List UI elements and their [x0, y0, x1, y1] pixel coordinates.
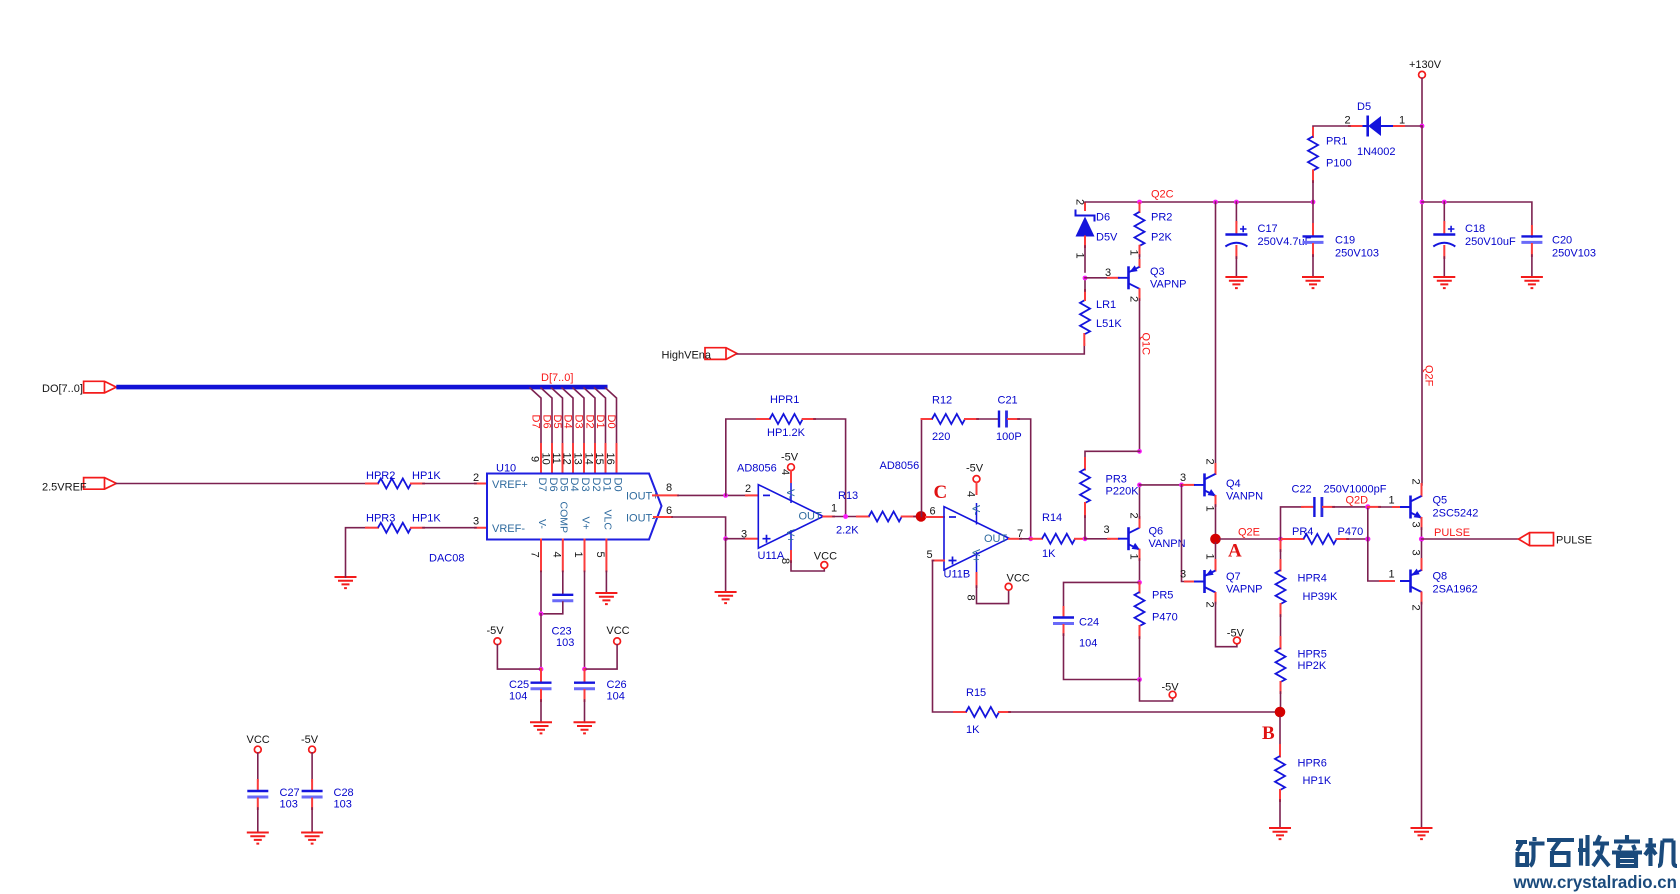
svg-text:3: 3	[1104, 524, 1110, 536]
svg-text:2: 2	[1128, 296, 1140, 302]
wire Q2D to Q5 base	[1368, 495, 1400, 508]
svg-text:D0: D0	[605, 415, 617, 429]
wire VCC to C26 junction	[585, 645, 618, 669]
wire C27 to ground	[257, 799, 259, 833]
svg-text:PR3: PR3	[1106, 474, 1127, 486]
svg-text:HPR4: HPR4	[1298, 573, 1327, 585]
capacitor C21	[996, 395, 1022, 444]
svg-text:250V103: 250V103	[1552, 248, 1596, 260]
wire D5 right lead	[1392, 115, 1422, 127]
wire C24 top hook	[1064, 582, 1140, 616]
wire node A to PR4 junction	[1220, 537, 1283, 542]
diode D5	[1345, 101, 1396, 158]
svg-text:P100: P100	[1326, 158, 1352, 170]
svg-text:103: 103	[280, 799, 298, 811]
ground HPR6	[1269, 828, 1291, 839]
svg-text:HP1K: HP1K	[1303, 775, 1332, 787]
ground C28	[301, 833, 323, 844]
capacitor C22	[1292, 484, 1387, 518]
power VCC (U11B pin8)	[965, 573, 1030, 604]
transistor Q5	[1400, 495, 1478, 520]
svg-text:DO[7..0]: DO[7..0]	[42, 383, 83, 395]
svg-text:VAPNP: VAPNP	[1150, 279, 1186, 291]
svg-text:2SA1962: 2SA1962	[1433, 584, 1478, 596]
svg-text:104: 104	[607, 691, 625, 703]
svg-text:Q3: Q3	[1150, 266, 1165, 278]
svg-text:2: 2	[1204, 459, 1216, 465]
capacitor C26	[574, 669, 627, 702]
wire PR3 to R14 junction	[1084, 503, 1086, 539]
svg-text:1K: 1K	[1042, 548, 1056, 560]
svg-text:VCC: VCC	[814, 551, 837, 563]
power -5V (Q7)	[1227, 628, 1245, 644]
svg-text:13: 13	[572, 453, 584, 465]
wire IOUT- jog down to pin3	[672, 493, 728, 541]
svg-text:OUT: OUT	[984, 533, 1008, 545]
svg-text:VCC: VCC	[247, 734, 270, 746]
wire PR2 to Q3 emitter	[1128, 246, 1140, 267]
svg-text:12: 12	[561, 453, 573, 465]
wire node C to U11B pin6	[926, 506, 944, 518]
svg-text:Q8: Q8	[1433, 571, 1448, 583]
svg-text:D7: D7	[529, 415, 541, 429]
svg-text:HP2K: HP2K	[1298, 660, 1327, 672]
wire C18 to ground	[1443, 246, 1445, 277]
svg-text:100P: 100P	[996, 431, 1022, 443]
net label Q2F	[1423, 365, 1435, 387]
svg-text:L51K: L51K	[1096, 318, 1122, 330]
wire R12 feedback left	[922, 419, 933, 516]
wire Q6 emitter down	[1128, 550, 1142, 585]
svg-text:D3: D3	[579, 478, 591, 492]
svg-text:1: 1	[1389, 495, 1395, 507]
resistor R13	[836, 490, 915, 537]
svg-text:250V103: 250V103	[1335, 248, 1379, 260]
ground C26	[574, 722, 596, 733]
ground U11A pin3	[715, 592, 737, 603]
svg-text:2: 2	[1410, 479, 1422, 485]
svg-text:PULSE: PULSE	[1434, 527, 1470, 539]
wire C17 to ground	[1235, 246, 1237, 277]
wire Q2C right segment	[1422, 200, 1532, 237]
svg-text:C28: C28	[334, 787, 354, 799]
net label Q2E	[1238, 527, 1260, 539]
svg-text:2.5VREF: 2.5VREF	[42, 482, 87, 494]
watermark url	[1513, 872, 1677, 892]
wire Q7 base hook	[1180, 485, 1194, 582]
wire pin4 COMP down to C23	[562, 571, 564, 594]
transistor Q3	[1118, 265, 1186, 290]
svg-text:Q7: Q7	[1226, 571, 1241, 583]
port DO[7..0]	[42, 381, 116, 395]
svg-text:1: 1	[1204, 554, 1216, 560]
DAC right pin stubs 8,6	[653, 482, 678, 517]
svg-text:Q1C: Q1C	[1140, 333, 1152, 356]
svg-text:2: 2	[1410, 605, 1422, 611]
svg-text:-5V: -5V	[781, 452, 799, 464]
ground VLC	[595, 593, 617, 604]
svg-text:D[7..0]: D[7..0]	[541, 372, 573, 384]
resistor PR2	[1135, 203, 1173, 246]
wire pin7 down to -5V junction	[539, 614, 544, 672]
svg-text:1: 1	[1204, 506, 1216, 512]
svg-text:D1: D1	[601, 478, 613, 492]
node A	[1210, 534, 1242, 562]
svg-text:D5V: D5V	[1096, 232, 1118, 244]
svg-text:+130V: +130V	[1409, 59, 1442, 71]
svg-text:220: 220	[932, 431, 950, 443]
capacitor C19	[1303, 202, 1380, 260]
svg-text:P2K: P2K	[1151, 232, 1172, 244]
net labels D7..D0 on wires	[529, 415, 617, 429]
wire pin3 to ground	[725, 539, 727, 592]
svg-text:C22: C22	[1292, 484, 1312, 496]
svg-text:PR4: PR4	[1292, 526, 1313, 538]
svg-text:1: 1	[1074, 253, 1086, 259]
svg-text:D3: D3	[572, 415, 584, 429]
resistor PR4	[1282, 526, 1363, 544]
svg-text:AD8056: AD8056	[880, 460, 920, 472]
wire Q1C junction to Q4 base junction	[1140, 483, 1184, 488]
svg-text:10: 10	[540, 453, 552, 465]
svg-text:3: 3	[741, 529, 747, 541]
svg-text:2: 2	[1345, 115, 1351, 127]
wire R14 to Q6 base	[1083, 524, 1119, 541]
wire U11B pin5 down to R15	[927, 549, 956, 712]
svg-text:6: 6	[930, 506, 936, 518]
wire HPR1 feedback left	[726, 419, 770, 495]
resistor HPR5	[1276, 648, 1327, 682]
pin stubs D7-D0 (pins 9-16)	[541, 444, 617, 474]
svg-text:C27: C27	[280, 787, 300, 799]
svg-text:D5: D5	[1357, 101, 1371, 113]
svg-text:HP1K: HP1K	[412, 470, 441, 482]
power -5V (U11A pin4)	[779, 452, 799, 483]
svg-text:4: 4	[779, 469, 791, 475]
svg-text:-5V: -5V	[1162, 682, 1180, 694]
wire Q8 emitter to ground	[1410, 593, 1422, 829]
svg-text:3: 3	[1180, 472, 1186, 484]
power -5V (U11B pin4)	[965, 463, 984, 498]
svg-text:C: C	[934, 482, 948, 503]
capacitor C25	[509, 669, 552, 702]
wire node B down to HPR6	[1279, 717, 1281, 757]
wire pin7 V- down	[540, 571, 542, 614]
wire HPR1 feedback right	[803, 419, 846, 517]
wire HighVEna to LR1	[737, 334, 1084, 354]
capacitor C28	[302, 787, 354, 811]
transistor Q7	[1194, 569, 1262, 595]
svg-text:-5V: -5V	[966, 463, 984, 475]
svg-text:1K: 1K	[966, 724, 980, 736]
capacitor C23	[552, 595, 575, 649]
svg-text:V-: V-	[536, 519, 548, 529]
svg-text:VAPNP: VAPNP	[1226, 584, 1262, 596]
svg-text:Q2E: Q2E	[1238, 527, 1260, 539]
resistor HPR3	[366, 513, 441, 533]
svg-text:C23: C23	[552, 626, 572, 638]
svg-text:1: 1	[1399, 115, 1405, 127]
svg-text:8: 8	[965, 595, 977, 601]
transistor Q4	[1194, 473, 1263, 502]
ground for HPR3	[335, 577, 357, 588]
svg-text:AD8056: AD8056	[737, 463, 777, 475]
svg-text:1N4002: 1N4002	[1357, 146, 1396, 158]
power VCC (DAC)	[606, 625, 629, 645]
wire node A down to Q7 emitter	[1204, 543, 1216, 571]
svg-text:C24: C24	[1079, 617, 1099, 629]
svg-text:HPR6: HPR6	[1298, 758, 1327, 770]
node B	[1262, 707, 1285, 744]
svg-text:D1: D1	[594, 415, 606, 429]
svg-text:104: 104	[509, 691, 527, 703]
node C	[916, 482, 948, 522]
svg-text:HP1.2K: HP1.2K	[767, 427, 806, 439]
svg-text:DAC08: DAC08	[429, 553, 464, 565]
wire C28 to ground	[311, 799, 313, 833]
transistor Q8	[1400, 569, 1478, 596]
resistor HPR6	[1275, 756, 1332, 790]
bus D[7..0]	[116, 385, 607, 390]
svg-text:A: A	[1228, 541, 1242, 562]
resistor R14	[1031, 512, 1085, 560]
svg-text:16: 16	[604, 453, 616, 465]
wire pin5 VLC to ground	[605, 571, 607, 593]
wire pin3 stub	[726, 529, 758, 541]
svg-text:4: 4	[550, 552, 562, 558]
wire R13 to node C	[914, 516, 921, 518]
svg-text:D2: D2	[583, 415, 595, 429]
svg-text:D7: D7	[536, 478, 548, 492]
svg-text:104: 104	[1079, 638, 1097, 650]
wire Q6 collector up	[1128, 483, 1142, 528]
svg-text:4: 4	[965, 491, 977, 497]
net Q2C wire	[1085, 200, 1315, 205]
svg-text:VANPN: VANPN	[1149, 538, 1186, 550]
resistor HPR1	[767, 394, 806, 439]
svg-text:VANPN: VANPN	[1226, 491, 1263, 503]
wire Q4 base stub	[1180, 472, 1194, 485]
svg-text:6: 6	[666, 505, 672, 517]
capacitor C18	[1433, 202, 1516, 248]
svg-text:1: 1	[572, 552, 584, 558]
wire Q4 emitter to node A	[1204, 496, 1216, 535]
capacitor C20	[1521, 226, 1596, 260]
svg-text:2: 2	[1128, 513, 1140, 519]
wire C25 to ground	[540, 700, 542, 722]
svg-text:Q6: Q6	[1149, 526, 1164, 538]
DAC bottom pin stubs 7,4,1,5	[529, 540, 607, 572]
svg-text:P220K: P220K	[1106, 486, 1140, 498]
power -5V (C28)	[301, 734, 319, 753]
svg-text:U10: U10	[496, 463, 516, 475]
svg-text:1: 1	[1389, 569, 1395, 581]
svg-text:7: 7	[529, 552, 541, 558]
wire Q5 emitter to PULSE node	[1410, 518, 1425, 542]
svg-text:2: 2	[473, 472, 479, 484]
power -5V (DAC)	[487, 625, 505, 645]
ground C20	[1521, 277, 1543, 288]
resistor PR5	[1135, 583, 1178, 626]
svg-text:www.crystalradio.cn: www.crystalradio.cn	[1513, 872, 1677, 892]
svg-text:1: 1	[1128, 554, 1140, 560]
wire HPR2 to VREF+ pin 2	[411, 472, 487, 484]
ground C27	[247, 833, 269, 844]
svg-text:COMP: COMP	[558, 502, 570, 534]
wire junction to -5V hook	[1140, 680, 1173, 702]
svg-text:B: B	[1262, 723, 1275, 744]
net label Q2C	[1151, 189, 1174, 201]
svg-text:HPR3: HPR3	[366, 513, 395, 525]
resistor HPR2	[366, 470, 441, 489]
svg-text:103: 103	[556, 637, 574, 649]
zener D6	[1074, 199, 1119, 272]
capacitor C24	[1053, 617, 1099, 650]
wire -5V to C25 junction	[497, 645, 541, 669]
op-amp U11B	[880, 460, 1010, 581]
svg-text:C25: C25	[509, 679, 529, 691]
DAC pin names	[492, 478, 659, 536]
wire C21 to OUT junction	[1008, 419, 1033, 541]
svg-text:D5: D5	[558, 478, 570, 492]
wire HPR5 to node B	[1280, 682, 1282, 707]
resistor R12	[932, 395, 965, 444]
svg-text:-5V: -5V	[301, 734, 319, 746]
svg-text:D0: D0	[612, 478, 624, 492]
wire PR4 to junction	[1347, 536, 1370, 541]
svg-text:14: 14	[583, 453, 595, 465]
power VCC (C27)	[247, 734, 270, 753]
svg-text:Q2F: Q2F	[1423, 365, 1435, 387]
wire C22 left hook	[1281, 507, 1314, 539]
port HighVEna	[662, 348, 738, 362]
ground C19	[1302, 277, 1324, 288]
svg-text:V-: V-	[970, 505, 982, 516]
svg-text:R12: R12	[932, 395, 952, 407]
wire ground to HPR3	[346, 528, 379, 577]
net label Q1C	[1140, 333, 1152, 356]
net label Q2D	[1346, 495, 1369, 507]
ground C17	[1225, 277, 1247, 288]
svg-text:-5V: -5V	[1227, 628, 1245, 640]
wire R12 to C21	[965, 418, 999, 420]
svg-text:-5V: -5V	[487, 625, 505, 637]
svg-text:C20: C20	[1552, 235, 1572, 247]
svg-text:HPR2: HPR2	[366, 470, 395, 482]
svg-text:U11B: U11B	[944, 569, 971, 581]
svg-text:1: 1	[1128, 250, 1140, 256]
svg-text:Q2D: Q2D	[1346, 495, 1369, 507]
wire IOUT+ to U11A pin2	[678, 483, 758, 495]
svg-text:V+: V+	[784, 529, 796, 543]
svg-text:C18: C18	[1465, 223, 1485, 235]
watermark logo	[1516, 835, 1677, 866]
wire bus entries D7-D0	[530, 388, 617, 444]
wire Q7 collector to -5V hook	[1204, 593, 1237, 647]
svg-text:D6: D6	[1096, 212, 1110, 224]
svg-text:15: 15	[593, 453, 605, 465]
net label D[7..0]	[541, 372, 573, 384]
port PULSE	[1519, 533, 1592, 547]
svg-text:11: 11	[550, 453, 562, 464]
svg-text:P470: P470	[1152, 612, 1178, 624]
svg-text:3: 3	[473, 516, 479, 528]
svg-text:2.2K: 2.2K	[836, 525, 859, 537]
svg-text:IOUT-: IOUT-	[626, 513, 656, 525]
svg-text:PR2: PR2	[1151, 212, 1172, 224]
svg-text:IOUT+: IOUT+	[626, 491, 659, 503]
svg-text:2: 2	[1074, 199, 1086, 205]
wire PULSE to port	[1422, 538, 1519, 540]
svg-text:103: 103	[334, 799, 352, 811]
svg-text:D2: D2	[590, 478, 602, 492]
svg-text:PR5: PR5	[1152, 590, 1173, 602]
resistor PR3	[1080, 469, 1139, 503]
svg-text:Q2C: Q2C	[1151, 189, 1174, 201]
wire C26 to ground	[584, 700, 586, 722]
wire R15 to node B	[1009, 711, 1280, 713]
svg-text:3: 3	[1180, 569, 1186, 581]
wire D6 junction to Q3 base	[1085, 267, 1119, 279]
svg-text:VREF+: VREF+	[492, 479, 528, 491]
svg-text:D6: D6	[540, 415, 552, 429]
power +130V	[1409, 59, 1442, 78]
svg-text:D5: D5	[551, 415, 563, 429]
svg-text:C19: C19	[1335, 235, 1355, 247]
svg-text:R14: R14	[1042, 512, 1062, 524]
svg-text:Q5: Q5	[1433, 495, 1448, 507]
wire HPR4 to HPR5	[1280, 604, 1282, 649]
svg-text:250V10uF: 250V10uF	[1465, 236, 1516, 248]
wire pin1 V+ down	[582, 571, 587, 671]
svg-text:HP1K: HP1K	[412, 513, 441, 525]
wire Q3 collector down (net Q1C)	[1128, 289, 1142, 453]
svg-text:9: 9	[529, 456, 541, 462]
resistor PR1	[1308, 136, 1352, 171]
capacitor C27	[247, 787, 299, 811]
power -5V (PR5)	[1162, 682, 1180, 699]
wire Q8 collector up	[1410, 542, 1422, 570]
svg-text:C17: C17	[1258, 223, 1278, 235]
svg-text:5: 5	[927, 549, 933, 561]
wire -5V to C28	[311, 753, 313, 790]
ground C18	[1433, 277, 1455, 288]
svg-text:HP39K: HP39K	[1303, 591, 1339, 603]
svg-text:P470: P470	[1338, 526, 1364, 538]
svg-text:PULSE: PULSE	[1556, 535, 1592, 547]
svg-text:HPR1: HPR1	[770, 394, 799, 406]
net label PULSE	[1434, 527, 1470, 539]
resistor R15	[954, 687, 1010, 736]
svg-text:R13: R13	[838, 490, 858, 502]
svg-text:3: 3	[1105, 267, 1111, 279]
op-amp U11A	[737, 463, 823, 563]
resistor LR1	[1080, 299, 1122, 334]
svg-text:PR1: PR1	[1326, 136, 1347, 148]
svg-text:D4: D4	[568, 478, 580, 492]
wire C22 to Q2D junction	[1323, 504, 1370, 509]
wire LR1 to D6 junction	[1083, 276, 1088, 300]
power VCC (U11A pin8)	[779, 551, 837, 572]
svg-text:OUT: OUT	[799, 511, 823, 523]
wire U11A OUT	[823, 503, 858, 519]
svg-text:5: 5	[594, 552, 606, 558]
svg-text:Q4: Q4	[1226, 478, 1241, 490]
wire +130V down	[1420, 78, 1425, 128]
svg-text:LR1: LR1	[1096, 299, 1116, 311]
svg-text:HPR5: HPR5	[1298, 649, 1327, 661]
wire junction to PR3 top	[1085, 451, 1140, 469]
